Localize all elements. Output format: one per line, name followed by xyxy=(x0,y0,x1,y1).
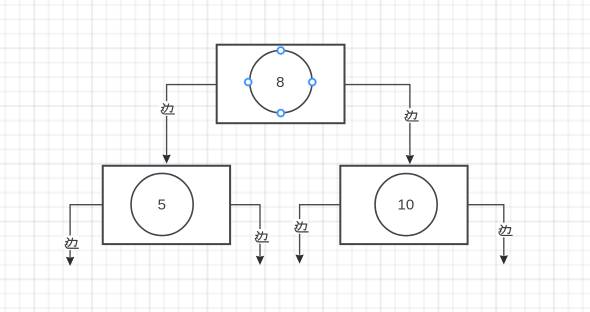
svg-text:10: 10 xyxy=(398,197,415,214)
svg-text:5: 5 xyxy=(158,197,166,214)
svg-text:8: 8 xyxy=(276,74,284,91)
